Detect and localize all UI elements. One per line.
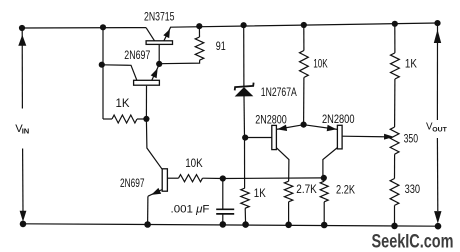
svg-text:2N697: 2N697 bbox=[120, 176, 145, 190]
svg-text:OUT: OUT bbox=[432, 126, 447, 133]
svg-text:1N2767A: 1N2767A bbox=[261, 87, 297, 99]
svg-text:1K: 1K bbox=[254, 188, 266, 200]
svg-text:IN: IN bbox=[22, 126, 30, 135]
svg-text:350: 350 bbox=[404, 134, 419, 146]
svg-text:1K: 1K bbox=[116, 98, 130, 110]
svg-text:2.2K: 2.2K bbox=[336, 185, 355, 197]
svg-text:10K: 10K bbox=[313, 58, 328, 70]
svg-text:SeekIC.com: SeekIC.com bbox=[372, 230, 454, 252]
svg-text:2N2800: 2N2800 bbox=[322, 112, 355, 126]
svg-text:2N3715: 2N3715 bbox=[144, 10, 175, 24]
svg-text:2N2800: 2N2800 bbox=[255, 112, 287, 126]
svg-text:91: 91 bbox=[216, 41, 226, 53]
svg-text:2N697: 2N697 bbox=[124, 48, 150, 62]
svg-text:10K: 10K bbox=[185, 158, 203, 170]
svg-text:.001 μF: .001 μF bbox=[171, 204, 210, 216]
svg-text:330: 330 bbox=[405, 184, 421, 196]
svg-text:2.7K: 2.7K bbox=[296, 184, 317, 196]
svg-text:1K: 1K bbox=[405, 58, 417, 70]
